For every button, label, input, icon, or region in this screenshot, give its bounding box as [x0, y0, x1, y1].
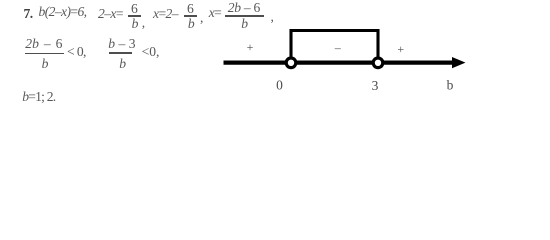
line 1: x=2- — [153, 7, 178, 21]
svg-text:0: 0 — [276, 78, 283, 93]
arrowhead — [452, 57, 466, 68]
svg-text:+: + — [247, 40, 254, 54]
svg-text:3: 3 — [372, 78, 379, 93]
line 2 fraction 1 numerator 2b-6 — [25, 37, 62, 51]
line 2: < 0, — [67, 45, 86, 59]
fraction 3 denominator b — [241, 17, 247, 31]
line 1: problem number 7. — [24, 7, 33, 21]
interval rectangle right vertical — [376, 29, 379, 59]
svg-text:+: + — [397, 42, 404, 56]
fraction 2 bar — [184, 15, 197, 17]
comma after fraction 2 — [200, 11, 203, 25]
number-line diagram — [215, 25, 477, 97]
comma after fraction 1 — [142, 16, 145, 30]
svg-text:b: b — [447, 78, 454, 93]
line 2 fraction 2 numerator b-3 — [108, 37, 135, 51]
fraction 2 numerator 6 — [187, 2, 193, 16]
line 3: answer b=1; 2. — [22, 90, 55, 104]
svg-text:–: – — [334, 40, 342, 54]
open circle at 3 — [373, 58, 383, 68]
fraction 1 numerator 6 — [131, 2, 137, 16]
fraction 2 denominator b — [188, 17, 194, 31]
fraction 3 bar — [225, 15, 265, 17]
line 2 fraction 2 denominator b — [119, 57, 125, 71]
comma after fraction 3 — [271, 10, 274, 24]
line 2 fraction 2 bar — [109, 52, 132, 54]
line 1: x= — [209, 6, 222, 20]
interval rectangle left vertical — [289, 29, 292, 59]
fraction 1 denominator b — [132, 17, 138, 31]
fraction 3 numerator 2b-6 — [228, 1, 260, 15]
fraction 1 bar — [128, 15, 141, 17]
interval rectangle top edge — [290, 29, 380, 32]
number line axis — [224, 60, 456, 64]
line 2: <0, — [142, 45, 160, 59]
line 1: 2-x= — [98, 7, 123, 21]
line 2 fraction 1 denominator b — [42, 57, 48, 71]
line 2 fraction 1 bar — [25, 53, 64, 55]
open circle at 0 — [286, 58, 296, 68]
line 1: b(2-x)=6, — [39, 5, 87, 19]
